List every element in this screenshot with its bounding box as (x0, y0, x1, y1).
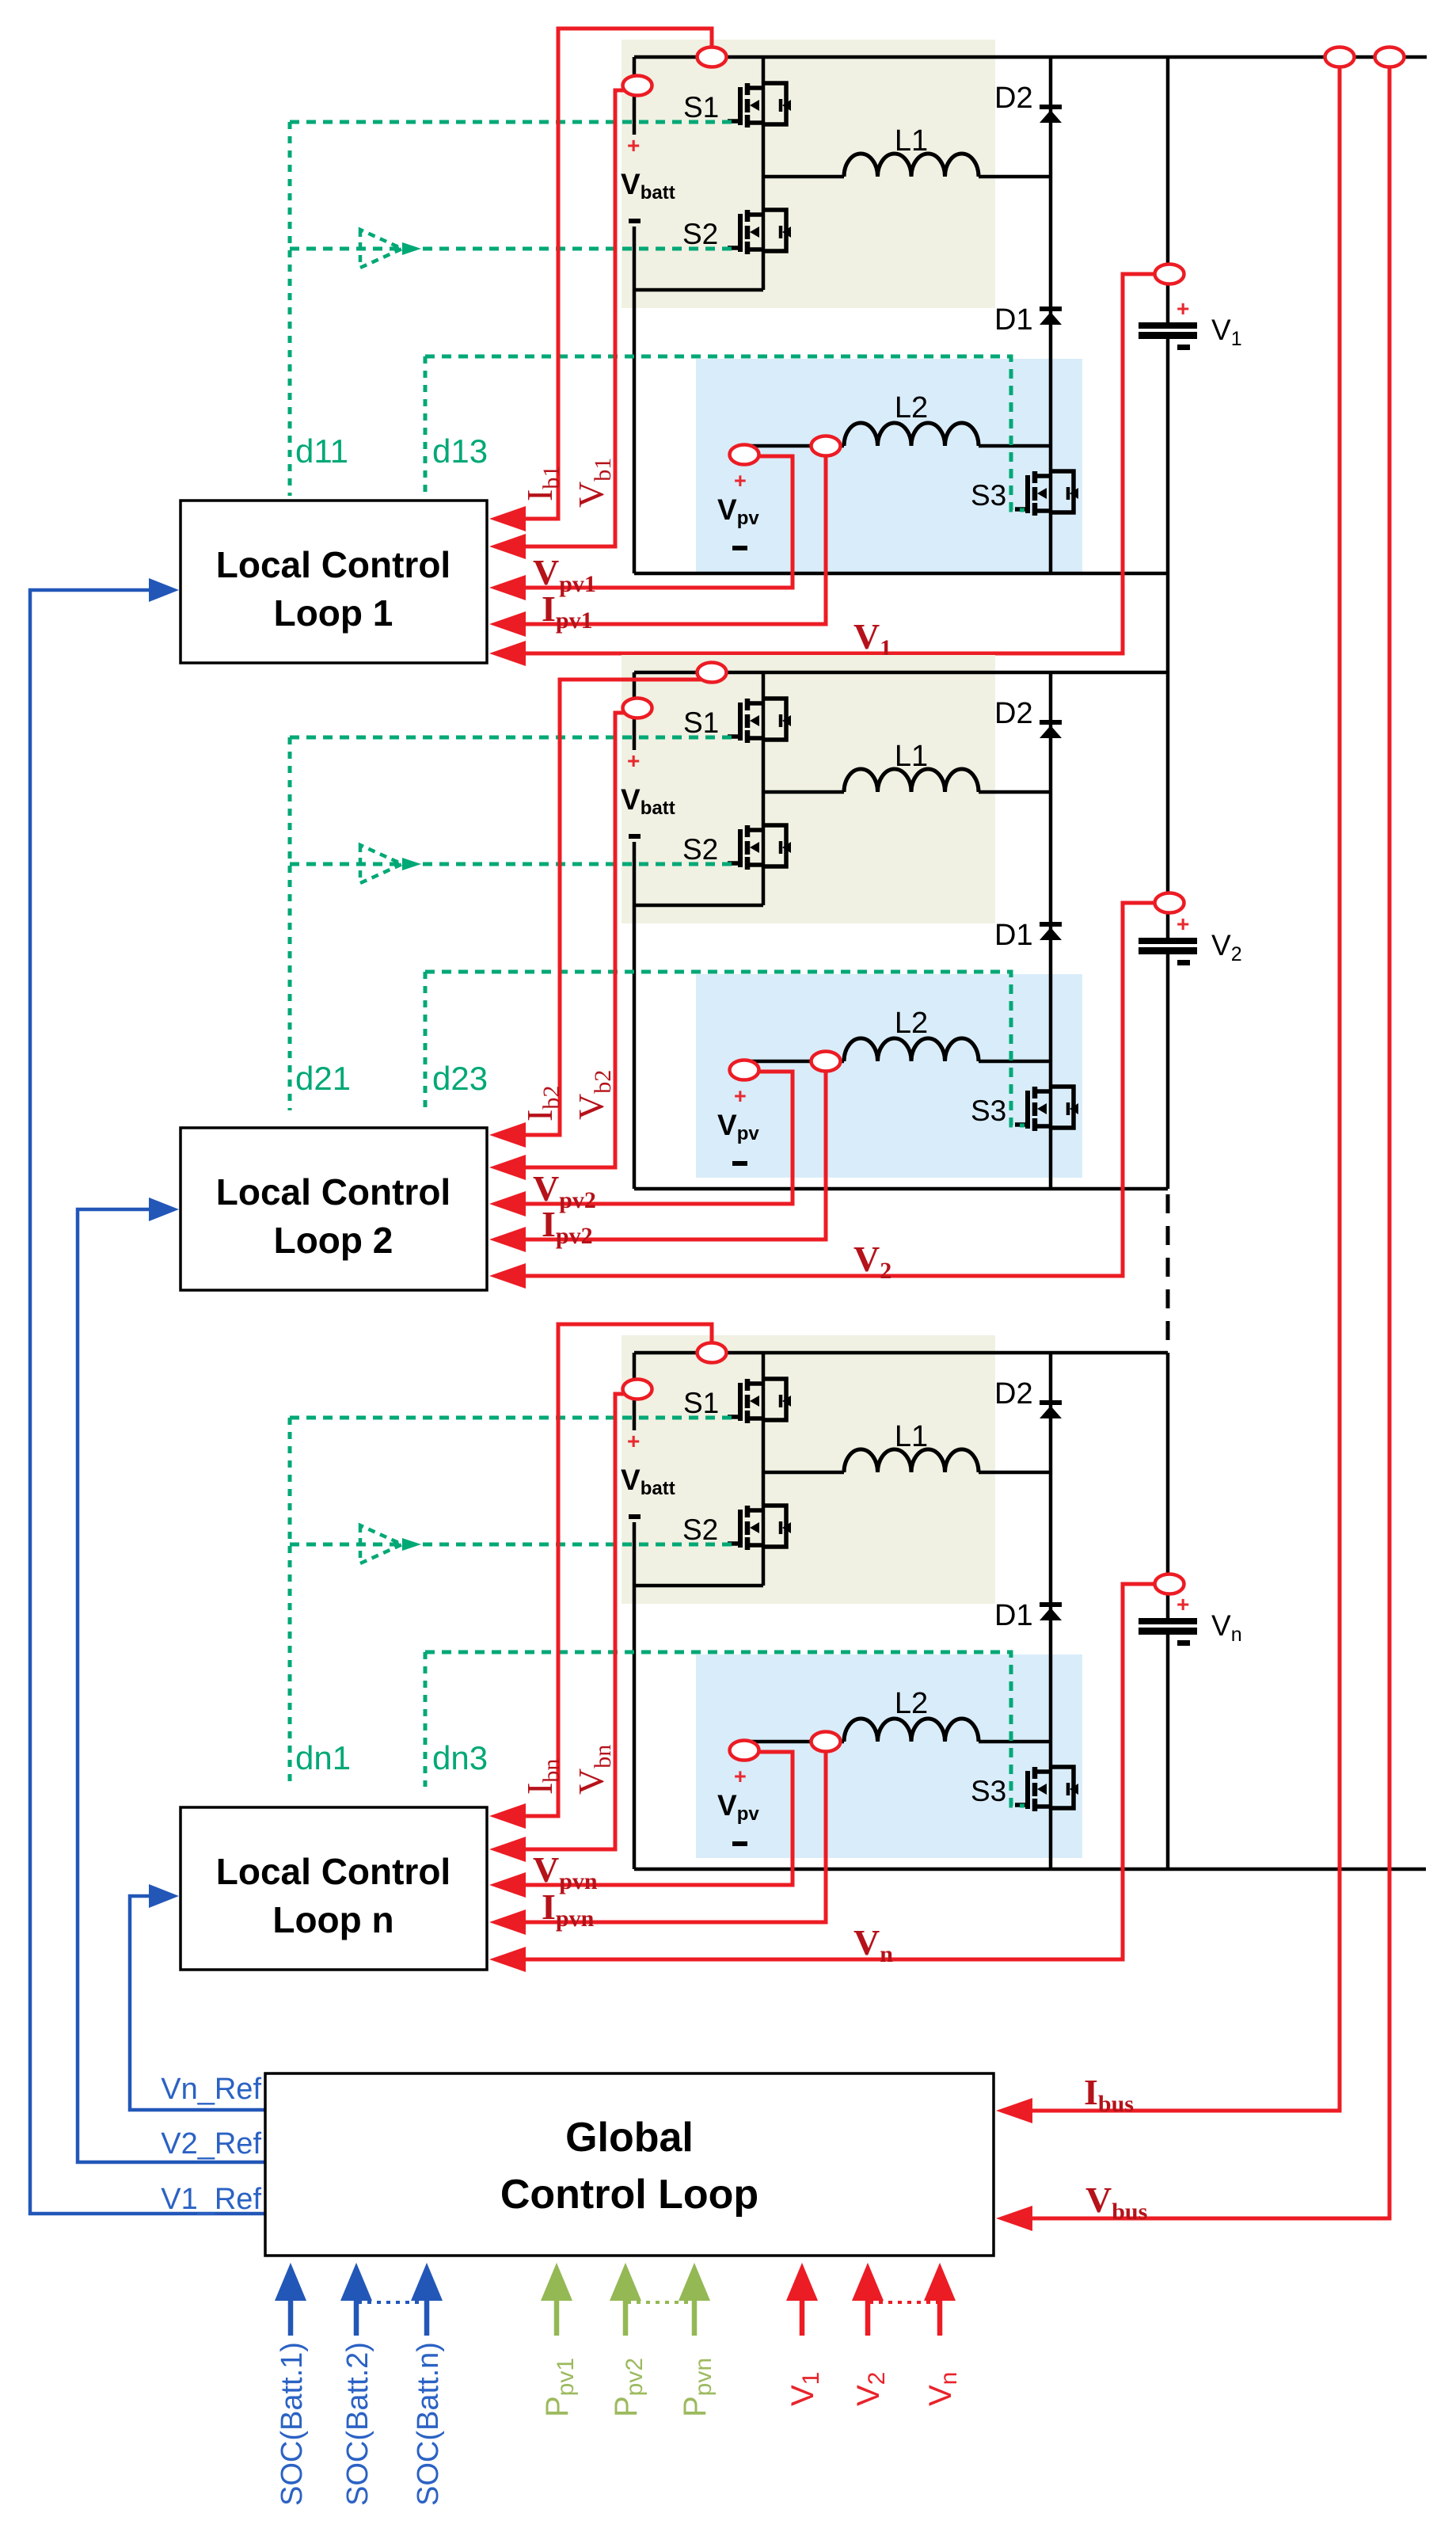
battery converter background (module 1) (622, 40, 995, 308)
transistor S2 (module 2) (728, 825, 791, 870)
wire: top rail module 2 (634, 671, 1168, 675)
gate drive vertical d23 (module 2) (424, 972, 428, 1110)
gate drive line d13 to S3 (module 1) (425, 356, 1025, 510)
svg-text:S1: S1 (683, 1387, 719, 1419)
capacitor Vn (1139, 1592, 1197, 1646)
diode D2 (module 2) (1040, 722, 1062, 738)
arrow into Local Control Loop 1 (3) (489, 575, 526, 600)
transistor S3 (module 2) (1015, 1087, 1078, 1131)
transistor S1 (module n) (728, 1379, 791, 1423)
svg-text:d11: d11 (295, 432, 348, 470)
svg-text:Vn_Ref: Vn_Ref (161, 2073, 261, 2106)
gate drive line d11 to S1 (module 1) (290, 120, 739, 124)
diode D2 (module n) (1040, 1403, 1062, 1418)
svg-text:L2: L2 (895, 1687, 928, 1720)
wire: Vbus sense line (1032, 67, 1389, 2218)
sense point: Vpv (module 2) (730, 1060, 759, 1080)
PV source Vpv (module n) (717, 1742, 759, 1846)
arrow into Local Control Loop 2 (3) (489, 1191, 526, 1217)
dashed link V inputs (869, 2301, 938, 2304)
PV source Vpv (module 1) (717, 446, 759, 550)
arrow into Local Control Loop n (2) (489, 1837, 526, 1862)
wire: Vn output voltage sense (523, 1584, 1161, 1959)
svg-text:+: + (1177, 1592, 1189, 1616)
inverter buffer (module n) (360, 1525, 421, 1563)
label Local Control Loop n (216, 1851, 450, 1940)
svg-text:D2: D2 (994, 1377, 1033, 1411)
gate drive vertical d21 (module 2) (288, 737, 292, 1110)
svg-text:D2: D2 (994, 82, 1033, 115)
wire: V1 output voltage sense (523, 274, 1161, 653)
arrow input Ppvn (679, 2263, 710, 2301)
capacitor V1 (1139, 296, 1197, 350)
svg-text:S3: S3 (971, 1775, 1006, 1807)
sense point: Vpv (module n) (730, 1741, 759, 1761)
wire: Vpv1 sense (523, 456, 793, 588)
sense point: battery voltage (module n) (623, 1380, 652, 1399)
svg-text:S3: S3 (971, 479, 1006, 512)
svg-text:SOC(Batt.1): SOC(Batt.1) (276, 2342, 309, 2506)
svg-text:Loop 2: Loop 2 (274, 1220, 393, 1261)
svg-text:+: + (627, 748, 640, 773)
svg-text:+: + (1177, 912, 1189, 936)
svg-text:+: + (627, 133, 640, 158)
Local Control Loop n box (181, 1807, 487, 1970)
arrow into Local Control Loop 1 (1) (489, 506, 526, 531)
arrow into Local Control Loop 1 (2) (489, 534, 526, 559)
battery converter background (module n) (622, 1335, 995, 1604)
label Local Control Loop 2 (216, 1171, 450, 1261)
svg-text:S2: S2 (682, 833, 718, 866)
wire: diode column module n (1049, 1353, 1053, 1869)
transistor S1 (module 1) (728, 83, 791, 128)
wire: battery left (+) lead module 2 (633, 672, 637, 750)
wire: bottom rail module 2 (634, 1187, 1168, 1191)
arrow into Local Control Loop 1 (4) (489, 611, 526, 637)
wire: L2 to S3 column module 1 (979, 444, 1051, 448)
svg-text:V1_Ref: V1_Ref (161, 2183, 261, 2216)
diode D2 (module 1) (1040, 107, 1062, 123)
inductor L1 (module 2) (844, 769, 979, 792)
svg-text:dn3: dn3 (432, 1739, 488, 1776)
wire: Vbn battery voltage sense (523, 1394, 633, 1849)
gate drive line dn1 to S1 (module n) (290, 1416, 739, 1420)
label Local Control Loop 1 (216, 544, 450, 634)
gate drive line to S2 via inverter (module 1) (290, 247, 739, 251)
wire: capacitor stack link module 1-2 (1166, 573, 1170, 672)
Local Control Loop 1 box (181, 501, 487, 663)
wire: Vb1 battery voltage sense (523, 90, 633, 546)
svg-text:d21: d21 (295, 1060, 351, 1097)
wire: S1/S2 half-bridge column module 2 (762, 672, 766, 905)
svg-text:Loop n: Loop n (272, 1899, 393, 1940)
PV source Vpv (module 2) (717, 1061, 759, 1166)
sense point: Vbus (1375, 48, 1405, 67)
svg-text:d13: d13 (432, 432, 488, 470)
arrow into Local Control Loop 2 (4) (489, 1227, 526, 1252)
wire: S1/S2 half-bridge column module n (762, 1353, 766, 1586)
wire: output capacitor column module 1 (1166, 57, 1170, 324)
arrow input V1 (786, 2263, 818, 2301)
wire: Vb2 battery voltage sense (523, 713, 633, 1167)
svg-text:+: + (734, 469, 747, 493)
wire: Ibn battery current sense (523, 1324, 712, 1816)
sense point: Ibus (1325, 48, 1355, 67)
wire: output capacitor column module 2 (1166, 672, 1170, 939)
gate drive vertical d13 (module 1) (424, 356, 428, 496)
wire: L2 to S3 column module 2 (979, 1060, 1051, 1064)
wire: bottom rail module n (634, 1868, 1426, 1871)
gate drive line d21 to S1 (module 2) (290, 736, 739, 740)
wire: V2_Ref (78, 1209, 265, 2162)
svg-text:+: + (1177, 296, 1189, 321)
svg-text:dn1: dn1 (295, 1739, 351, 1776)
inverter buffer (module 1) (360, 230, 421, 268)
arrow: V1_Ref into Local Control Loop 1 (149, 578, 179, 602)
svg-text:S2: S2 (682, 218, 718, 250)
wire: Vpvn sense (523, 1752, 793, 1885)
wire: Ipv2 sense (523, 1066, 826, 1239)
wire: Ib2 battery current sense (523, 680, 709, 1135)
gate drive vertical dn1 (module n) (288, 1418, 292, 1787)
transistor S3 (module n) (1015, 1767, 1078, 1811)
wire: Vn_Ref (130, 1896, 265, 2110)
svg-text:L1: L1 (895, 1420, 928, 1453)
sense point: battery voltage (module 2) (623, 699, 652, 718)
arrow into Local Control Loop n (1) (489, 1803, 526, 1829)
arrow into Local Control Loop 2 (2) (489, 1155, 526, 1180)
wire: battery left (+) lead module n (633, 1353, 637, 1430)
sense point: V2 capacitor (module 2) (1155, 893, 1184, 913)
svg-text:L1: L1 (895, 124, 928, 158)
wire: battery bottom return module n (634, 1584, 763, 1588)
gate drive vertical d11 (module 1) (288, 122, 292, 496)
sense point: Vpv (module 1) (730, 445, 759, 465)
wire: battery left (+) lead module 1 (633, 57, 637, 135)
wire: V1_Ref (30, 590, 265, 2214)
wire: capacitor stack dashed continuation (omitted modules) (1166, 1194, 1170, 1353)
diode D1 (module 2) (1040, 924, 1062, 940)
arrow input SOC(Batt.n) (411, 2263, 443, 2301)
diode D1 (module n) (1040, 1605, 1062, 1620)
arrow into Local Control Loop 1 (5) (489, 641, 526, 666)
gate drive line dn3 to S3 (module n) (425, 1652, 1025, 1806)
svg-text:D2: D2 (994, 697, 1033, 730)
label Global Control Loop (500, 2115, 758, 2218)
arrow: Vn_Ref into Local Control Loop n (149, 1884, 179, 1908)
wire: Ipv1 sense (523, 451, 826, 624)
wire: midpoint to L1 module 1 (763, 175, 844, 179)
transistor S2 (module 1) (728, 210, 791, 254)
svg-text:S3: S3 (971, 1095, 1006, 1127)
svg-text:Local Control: Local Control (216, 1851, 450, 1892)
svg-text:Loop 1: Loop 1 (274, 592, 393, 634)
transistor S1 (module 2) (728, 699, 791, 743)
arrow into Local Control Loop n (4) (489, 1909, 526, 1935)
wire: L1 to diode column module n (979, 1471, 1051, 1475)
arrow: Vbus into Global Control Loop (996, 2206, 1032, 2231)
wire: diode column module 2 (1049, 672, 1053, 1189)
wire: L2 to S3 column module n (979, 1740, 1051, 1744)
svg-text:V2_Ref: V2_Ref (161, 2127, 261, 2161)
svg-text:+: + (734, 1084, 747, 1108)
wire: midpoint to L1 module 2 (763, 790, 844, 794)
sense point: Ipv (module 2) (812, 1052, 841, 1072)
battery Vbatt (module 1) (621, 133, 675, 223)
sense point: battery top (module 1) (698, 48, 727, 67)
svg-text:Global: Global (565, 2115, 694, 2161)
svg-text:SOC(Batt.n): SOC(Batt.n) (412, 2342, 445, 2506)
wire: battery left (-) lead module 1 (633, 227, 637, 573)
sense point: Ipv (module n) (812, 1732, 841, 1752)
inductor L1 (module 1) (844, 154, 979, 177)
svg-text:+: + (627, 1429, 640, 1453)
svg-text:d23: d23 (432, 1060, 488, 1097)
wire: Vpv2 sense (523, 1072, 793, 1204)
svg-text:+: + (734, 1765, 747, 1788)
Global Control Loop box (265, 2073, 994, 2256)
arrow into Local Control Loop n (3) (489, 1872, 526, 1898)
wire: output capacitor column module n (1166, 1353, 1170, 1620)
wire: top rail module n (634, 1351, 1168, 1355)
inductor L1 (module n) (844, 1449, 979, 1472)
gate drive line to S2 via inverter (module n) (290, 1543, 739, 1547)
wire: midpoint to L1 module n (763, 1471, 844, 1475)
svg-text:Local Control: Local Control (216, 544, 450, 585)
svg-text:S1: S1 (683, 91, 719, 124)
wire: Ibus sense line (1032, 67, 1340, 2111)
svg-text:Local Control: Local Control (216, 1171, 450, 1213)
wire: battery bottom return module 1 (634, 288, 763, 292)
arrow input Ppv2 (610, 2263, 641, 2301)
sense point: battery top (module n) (698, 1343, 727, 1363)
arrow into Local Control Loop n (5) (489, 1947, 526, 1972)
arrow into Local Control Loop 2 (5) (489, 1263, 526, 1289)
sense point: battery top (module 2) (698, 663, 727, 683)
arrow input V2 (852, 2263, 884, 2301)
wire: Ib1 battery current sense (523, 29, 712, 519)
capacitor V2 (1139, 912, 1197, 965)
wire: L1 to diode column module 1 (979, 175, 1051, 179)
wire: S1/S2 half-bridge column module 1 (762, 57, 766, 290)
battery converter background (module 2) (622, 655, 995, 923)
svg-text:L2: L2 (895, 1007, 928, 1040)
inverter buffer (module 2) (360, 845, 421, 883)
wire: top rail module 1 (634, 55, 1427, 59)
arrow input SOC(Batt.2) (340, 2263, 372, 2301)
sense point: battery voltage (module 1) (623, 76, 652, 96)
transistor S2 (module n) (728, 1506, 791, 1550)
wire: Vpv to L2 module 2 (742, 1060, 844, 1064)
svg-text:S2: S2 (682, 1513, 718, 1546)
diode D1 (module 1) (1040, 309, 1062, 325)
sense point: V1 capacitor (module 1) (1155, 265, 1184, 284)
transistor S3 (module 1) (1015, 471, 1078, 516)
arrow: V2_Ref into Local Control Loop 2 (149, 1197, 179, 1221)
dashed link Ppv inputs (627, 2301, 693, 2304)
svg-text:D1: D1 (994, 1599, 1033, 1632)
wire: V2 output voltage sense (523, 903, 1161, 1276)
svg-text:D1: D1 (994, 303, 1033, 337)
gate drive vertical dn3 (module n) (424, 1652, 428, 1787)
dashed link SOC inputs (358, 2301, 425, 2304)
wire: bottom rail module 1 (634, 572, 1168, 576)
svg-text:L1: L1 (895, 740, 928, 773)
wire: battery bottom return module 2 (634, 904, 763, 908)
wire: Vpv to L2 module 1 (742, 444, 844, 448)
wire: battery left (-) lead module n (633, 1522, 637, 1869)
wire: battery left (-) lead module 2 (633, 842, 637, 1189)
arrow input SOC(Batt.1) (275, 2263, 306, 2301)
inductor L2 (module 1) (844, 423, 979, 446)
svg-text:SOC(Batt.2): SOC(Batt.2) (341, 2342, 374, 2506)
wire: Ipvn sense (523, 1746, 826, 1922)
svg-text:S1: S1 (683, 706, 719, 739)
gate drive line to S2 via inverter (module 2) (290, 862, 739, 866)
arrow: Ibus into Global Control Loop (996, 2098, 1032, 2123)
inductor L2 (module n) (844, 1719, 979, 1742)
arrow into Local Control Loop 2 (1) (489, 1122, 526, 1148)
wire: diode column module 1 (1049, 57, 1053, 573)
battery Vbatt (module n) (621, 1429, 675, 1519)
Local Control Loop 2 box (181, 1128, 487, 1290)
arrow input Vn (924, 2263, 956, 2301)
inductor L2 (module 2) (844, 1038, 979, 1061)
sense point: Vn capacitor (module n) (1155, 1574, 1184, 1594)
gate drive line d23 to S3 (module 2) (425, 972, 1025, 1125)
wire: Vpv to L2 module n (742, 1740, 844, 1744)
battery Vbatt (module 2) (621, 748, 675, 839)
svg-text:Control Loop: Control Loop (500, 2172, 758, 2218)
arrow input Ppv1 (541, 2263, 572, 2301)
svg-text:L2: L2 (895, 391, 928, 425)
svg-text:D1: D1 (994, 919, 1033, 952)
sense point: Ipv (module 1) (812, 436, 841, 456)
PV converter background (module 1) (696, 359, 1082, 575)
PV converter background (module n) (696, 1654, 1082, 1858)
wire: L1 to diode column module 2 (979, 790, 1051, 794)
PV converter background (module 2) (696, 974, 1082, 1178)
